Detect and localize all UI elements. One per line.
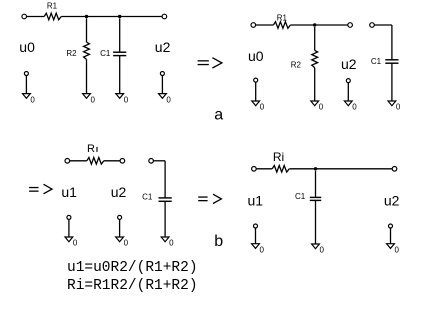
svg-text:u1: u1 <box>61 184 77 200</box>
svg-text:0: 0 <box>352 103 357 112</box>
svg-text:0: 0 <box>396 103 401 112</box>
svg-text:C1: C1 <box>371 57 382 66</box>
svg-text:0: 0 <box>124 239 129 248</box>
svg-text:C1: C1 <box>142 193 153 202</box>
svg-text:u2: u2 <box>111 184 127 200</box>
svg-text:u2: u2 <box>155 39 171 55</box>
svg-text:0: 0 <box>395 245 400 254</box>
svg-text:0: 0 <box>73 239 78 248</box>
svg-text:0: 0 <box>30 95 35 104</box>
svg-text:Ri: Ri <box>273 150 284 164</box>
svg-text:C1: C1 <box>100 49 111 58</box>
svg-text:0: 0 <box>260 245 265 254</box>
svg-text:b: b <box>214 233 223 250</box>
svg-text:R2: R2 <box>291 60 302 69</box>
svg-text:0: 0 <box>319 103 324 112</box>
svg-text:u2: u2 <box>341 56 357 72</box>
svg-text:0: 0 <box>91 95 96 104</box>
svg-text:u2: u2 <box>384 193 400 209</box>
svg-text:0: 0 <box>320 246 325 255</box>
svg-text:u1=u0R2/(R1+R2): u1=u0R2/(R1+R2) <box>67 260 198 276</box>
svg-text:C1: C1 <box>295 192 306 201</box>
svg-text:0: 0 <box>166 95 171 104</box>
svg-text:Ri=R1R2/(R1+R2): Ri=R1R2/(R1+R2) <box>67 278 198 294</box>
svg-text:R2: R2 <box>66 49 77 58</box>
svg-text:u1: u1 <box>248 193 264 209</box>
svg-text:0: 0 <box>260 103 265 112</box>
svg-text:R: R <box>87 143 95 155</box>
svg-text:u0: u0 <box>248 48 264 64</box>
svg-text:u0: u0 <box>19 39 35 55</box>
svg-text:0: 0 <box>169 239 174 248</box>
svg-text:a: a <box>214 107 223 124</box>
svg-text:R1: R1 <box>47 2 58 11</box>
svg-text:0: 0 <box>124 95 129 104</box>
svg-text:R1: R1 <box>277 13 288 22</box>
